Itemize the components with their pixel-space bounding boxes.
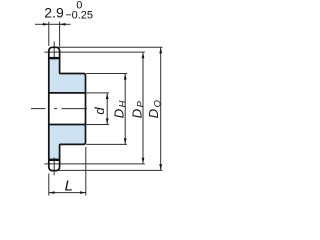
svg-text:0: 0 bbox=[76, 0, 82, 11]
svg-text:−0.25: −0.25 bbox=[65, 10, 93, 22]
svg-text:d: d bbox=[92, 107, 107, 115]
svg-text:L: L bbox=[65, 178, 73, 195]
svg-text:2.9: 2.9 bbox=[44, 5, 64, 21]
